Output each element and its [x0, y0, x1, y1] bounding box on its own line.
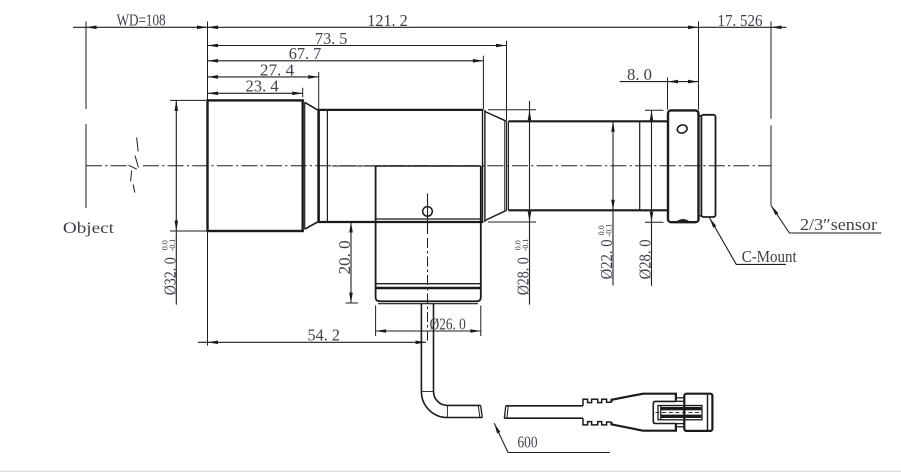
sensor plane dashed line — [770, 22, 772, 119]
cable piece1 top edge — [447, 404, 480, 406]
dim O28 mid vertical — [529, 101, 531, 305]
ring line — [326, 110, 328, 222]
taper O32 to O28 bottom — [305, 222, 318, 229]
svg-text:-0.1: -0.1 — [168, 239, 177, 252]
ext line front face top — [207, 22, 209, 101]
connector rear housing — [684, 394, 712, 431]
break symbol squiggle — [131, 138, 139, 193]
arrow WD left — [86, 26, 97, 30]
latch bridge bottom — [676, 423, 684, 425]
svg-text:Ø28. 0: Ø28. 0 — [635, 239, 654, 279]
cable piece1 cut end — [481, 405, 483, 417]
label O22 rotated — [597, 224, 616, 280]
block top edge extension to left — [332, 165, 376, 167]
ext O28rear bottom — [645, 221, 664, 223]
set screw circle on block — [423, 207, 433, 217]
dim 73.5 — [208, 45, 507, 47]
dim O26 — [376, 330, 481, 332]
object plane line — [85, 22, 87, 110]
ext tick 23.4 — [302, 88, 304, 98]
boot inner U notch — [653, 401, 676, 423]
C-mount flange body — [668, 110, 699, 222]
svg-text:Ø22. 0: Ø22. 0 — [597, 239, 616, 279]
neck groove bottom — [699, 215, 702, 217]
block inner line — [376, 218, 481, 220]
centerline break jog — [129, 165, 137, 169]
ext 8.0 left — [667, 78, 669, 110]
mid barrel O28 bottom edge — [318, 221, 484, 223]
svg-text:20. 0: 20. 0 — [335, 240, 354, 274]
chamfer triple lines — [504, 121, 506, 210]
ext 27.4 — [318, 72, 320, 110]
svg-text:600: 600 — [518, 433, 538, 452]
dim 54.2 — [198, 341, 426, 343]
ext line front face bottom (to 54.2) — [207, 231, 209, 346]
dim 8.0 — [620, 81, 699, 83]
taper O28 to O22 top — [485, 112, 507, 122]
step down double line — [482, 110, 484, 222]
dim line top row — [73, 26, 787, 28]
dim O28 rear vertical — [651, 110, 653, 286]
ext O28mid bottom — [488, 221, 536, 223]
mount block top edge — [376, 165, 481, 167]
arrow 121.2 right — [688, 26, 699, 30]
housing inner line — [707, 395, 709, 430]
svg-text:Ø28. 0: Ø28. 0 — [513, 257, 532, 295]
cable piece2 — [506, 405, 583, 407]
front barrel O32 — [208, 100, 303, 231]
leader C-Mount — [710, 218, 787, 265]
mid barrel O28 top edge — [318, 109, 484, 111]
dim O32 vertical — [175, 100, 177, 304]
faint page edge bottom — [0, 470, 901, 472]
label 20.0 rotated — [335, 240, 354, 274]
arrow 600 leader — [494, 423, 500, 433]
block lower thick line — [376, 287, 481, 289]
svg-text:Ø26. 0: Ø26. 0 — [430, 314, 466, 333]
pin bar dark band 1 — [661, 407, 701, 410]
ext 20.0 bottom — [346, 302, 359, 304]
ext O28rear top — [645, 109, 664, 111]
groove line on O22 barrel — [639, 121, 641, 210]
pin bar left cap — [660, 406, 662, 420]
block base plate line — [378, 303, 478, 305]
dim 27.4 — [208, 76, 319, 78]
leader 2/3 sensor — [771, 205, 882, 233]
svg-text:121. 2: 121. 2 — [367, 11, 407, 30]
svg-text:2/3″sensor: 2/3″sensor — [800, 215, 877, 234]
svg-text:Object: Object — [63, 220, 115, 237]
screw centerline solid — [427, 194, 429, 235]
block lower thin line — [376, 283, 481, 285]
flange set screw (bottom, dark) — [678, 220, 689, 222]
taper O32 to O28 top — [305, 102, 318, 110]
rear barrel O22 top edge — [508, 120, 668, 122]
arrow sensor leader — [771, 205, 778, 215]
svg-text:8. 0: 8. 0 — [627, 65, 652, 84]
latch bridge top — [676, 397, 684, 399]
cable vertical tube right edge — [433, 304, 435, 392]
arrow 17.526 right (outside) — [771, 26, 782, 30]
front barrel inner face line — [304, 102, 306, 229]
svg-text:Ø32. 0: Ø32. 0 — [160, 257, 179, 295]
ext 73.5 — [506, 41, 508, 121]
strain relief ribs — [583, 399, 612, 406]
connector boot outline — [612, 394, 676, 403]
C-mount thread ring — [701, 115, 715, 217]
pin bar outline — [658, 406, 702, 420]
pin bar dark band 2 — [661, 415, 701, 418]
bend end tick — [446, 405, 448, 417]
screw/cable centerline dashdot — [427, 238, 429, 342]
label O32 rotated — [160, 239, 179, 296]
label O28 mid rotated — [513, 239, 532, 296]
cable bend outer arc — [421, 392, 447, 418]
svg-text:WD=108: WD=108 — [117, 10, 166, 29]
ext O32 top — [170, 99, 206, 101]
ext 67.7 — [482, 56, 484, 109]
leader 600 — [494, 423, 610, 452]
arrow 121.2 left — [208, 26, 219, 30]
neck groove top — [699, 115, 702, 117]
ext flange right face up — [698, 22, 700, 110]
cable vertical tube left edge — [420, 304, 422, 392]
cable piece1 bottom edge — [447, 417, 482, 419]
svg-text:-0.1: -0.1 — [521, 239, 530, 252]
ext O28mid top — [488, 109, 536, 111]
label O28 rear rotated — [635, 239, 654, 279]
dim 20.0 vertical — [350, 222, 352, 303]
svg-text:23. 4: 23. 4 — [246, 77, 280, 96]
ext O26 left — [375, 306, 377, 337]
svg-text:C-Mount: C-Mount — [742, 247, 797, 266]
mount block sides/bottom — [376, 166, 481, 301]
flange set screw (top) — [676, 124, 688, 135]
dim 67.7 — [208, 60, 484, 62]
taper O28 to O22 bottom — [485, 210, 507, 220]
pin bar dashed centerline — [656, 412, 702, 414]
dim 23.4 — [208, 92, 303, 94]
main optical axis centerline — [86, 165, 129, 167]
svg-text:54. 2: 54. 2 — [308, 326, 341, 345]
thick ring band — [317, 110, 320, 222]
cable bend inner arc — [434, 392, 448, 406]
rear barrel O22 bottom edge — [508, 209, 668, 211]
ext O26 right — [480, 306, 482, 337]
svg-text:-0.1: -0.1 — [604, 224, 613, 237]
arrow C-Mount leader — [710, 218, 717, 228]
svg-text:17. 526: 17. 526 — [718, 11, 763, 30]
ext O32 bottom — [170, 230, 206, 232]
bend tangent tick — [421, 391, 433, 393]
arrow WD right — [197, 26, 208, 30]
dim O22 vertical — [612, 121, 614, 285]
